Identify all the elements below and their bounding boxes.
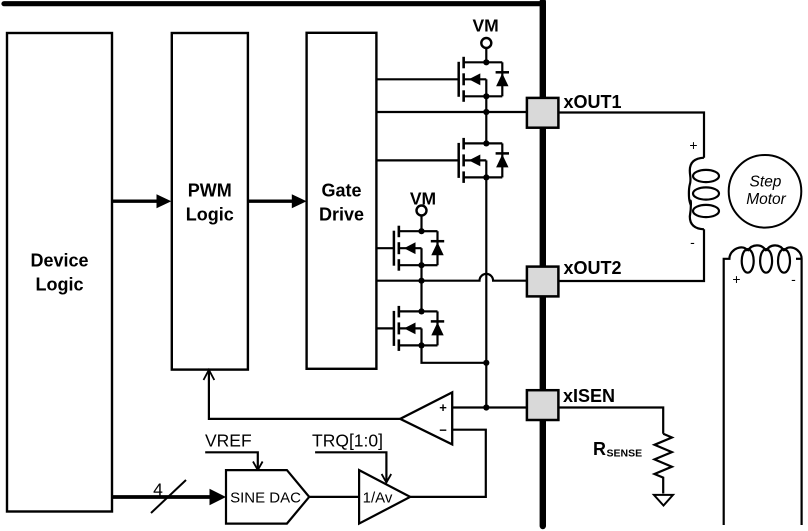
- resistor Rsense: [655, 434, 672, 494]
- svg-text:+: +: [689, 137, 697, 153]
- svg-text:-: -: [791, 271, 796, 287]
- wire Q4 source to sense line: [422, 345, 487, 362]
- op-amp current sense comparator: [400, 392, 452, 444]
- svg-text:TRQ[1:0]: TRQ[1:0]: [312, 430, 383, 450]
- transistor Q2 (low side, xOUT1) with body diode: [459, 138, 509, 183]
- chip boundary vertical bus: [540, 2, 546, 527]
- transistor Q4 (low side, xOUT2) with body diode: [394, 306, 444, 351]
- junction sense line: [483, 360, 489, 366]
- amplifier 1/Av: [359, 470, 410, 523]
- pad xISEN: [527, 390, 559, 420]
- wire gate drive to Q1 gate: [376, 78, 458, 80]
- svg-text:xOUT2: xOUT2: [564, 258, 622, 278]
- svg-text:xOUT1: xOUT1: [564, 92, 622, 112]
- junction xOUT1 node: [483, 109, 489, 115]
- wire gate drive to Q3 gate: [376, 247, 394, 249]
- svg-text:-: -: [690, 234, 695, 250]
- svg-text:xISEN: xISEN: [563, 386, 615, 406]
- wire xOUT1 to motor winding 1: [558, 113, 704, 158]
- bus width slash: [151, 480, 186, 513]
- junction plus input / sense line: [483, 404, 489, 410]
- transistor Q1 (high side, xOUT1) with body diode: [459, 57, 509, 102]
- SINE DAC block: [226, 470, 309, 523]
- svg-text:4: 4: [153, 480, 163, 500]
- svg-text:−: −: [439, 423, 447, 438]
- wire TRQ arrow into 1/Av: [315, 452, 386, 480]
- svg-text:R: R: [593, 439, 606, 459]
- svg-text:Logic: Logic: [36, 275, 84, 295]
- arrowhead into PWM Logic: [204, 370, 215, 380]
- svg-text:Gate: Gate: [321, 181, 361, 201]
- arrowhead TRQ: [382, 474, 392, 483]
- bus arrow Device Logic to SINE DAC: [112, 489, 226, 506]
- wire VREF arrow into SINE DAC: [205, 452, 258, 468]
- block Device Logic: [7, 33, 112, 512]
- wire 1/Av output to comparator minus input: [410, 430, 486, 497]
- inductor L2 (motor winding 2): [724, 245, 802, 525]
- wire xOUT1 node: [376, 111, 527, 113]
- block Gate Drive: [307, 33, 377, 369]
- pad xOUT1: [527, 98, 559, 128]
- block PWM Logic: [172, 33, 248, 370]
- wire xISEN to Rsense: [558, 408, 663, 434]
- wire xOUT2 node with hop over sense line: [376, 274, 527, 281]
- wire motor winding 1 to xOUT2: [558, 229, 704, 281]
- wire comparator output feedback to PWM Logic: [209, 371, 400, 419]
- inductor L1 (motor winding 1): [689, 158, 719, 230]
- VM terminal (OUT1 half-bridge): [472, 16, 498, 63]
- step motor circle: [729, 155, 802, 228]
- wire gate drive to Q2 gate: [376, 159, 458, 161]
- label Rsense: [593, 439, 642, 460]
- svg-text:+: +: [439, 400, 447, 415]
- svg-text:VREF: VREF: [205, 430, 252, 450]
- svg-text:Logic: Logic: [186, 205, 234, 225]
- wire SINE DAC to 1/Av: [309, 496, 359, 498]
- wire Q1 source to Q2 drain: [485, 96, 487, 143]
- svg-text:SENSE: SENSE: [607, 448, 643, 460]
- svg-text:1/Av: 1/Av: [363, 490, 393, 507]
- svg-text:SINE DAC: SINE DAC: [230, 490, 301, 507]
- svg-text:Device: Device: [30, 251, 88, 271]
- junction xOUT2 node: [418, 278, 424, 284]
- svg-text:PWM: PWM: [188, 181, 232, 201]
- svg-text:Step: Step: [750, 174, 782, 191]
- wire gate drive to Q4 gate: [376, 327, 394, 329]
- transistor Q3 (high side, xOUT2) with body diode: [394, 226, 444, 271]
- arrowhead VREF: [253, 462, 263, 471]
- arrow Device Logic to PWM Logic: [112, 194, 171, 208]
- svg-text:Motor: Motor: [746, 191, 786, 208]
- wire Q3 source to Q4 drain: [420, 265, 422, 311]
- VM terminal (OUT2 half-bridge): [410, 189, 436, 232]
- svg-text:VM: VM: [472, 16, 498, 36]
- wire comparator plus input to xISEN pad: [452, 406, 527, 408]
- pad xOUT2: [527, 267, 559, 297]
- svg-text:Drive: Drive: [319, 205, 364, 225]
- ground symbol: [654, 495, 673, 506]
- chip boundary top bar: [4, 1, 543, 6]
- wire sense line (Q2 source down to comparator node): [485, 177, 487, 407]
- svg-text:+: +: [732, 271, 740, 287]
- arrow PWM Logic to Gate Drive: [248, 194, 307, 208]
